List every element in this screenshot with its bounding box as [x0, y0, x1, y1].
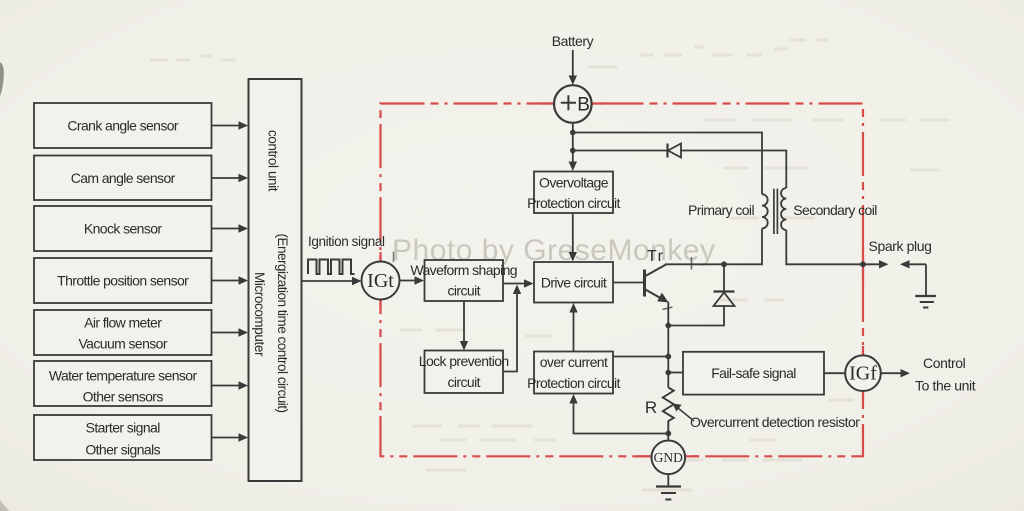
- svg-text:Cam angle sensor: Cam angle sensor: [71, 170, 176, 186]
- wire: knock sensor to control unit: [212, 224, 249, 232]
- node: spark plug junction on boundary: [860, 261, 866, 267]
- wire: emitter down to resistor R: [667, 302, 669, 388]
- node: emitter-diode junction: [665, 323, 671, 329]
- svg-text:Other sensors: Other sensors: [83, 389, 164, 405]
- terminal +B: [554, 85, 592, 123]
- node: resistor bottom junction: [665, 431, 671, 437]
- solid red stubs at terminal crossings: [381, 104, 864, 457]
- svg-text:Protection circuit: Protection circuit: [527, 375, 620, 391]
- node: collector junction: [721, 261, 727, 267]
- spark gap right electrode (arrow): [900, 260, 926, 268]
- svg-text:Waveform shaping: Waveform shaping: [410, 262, 517, 278]
- diode D1 (cathode left): [668, 144, 682, 158]
- terminal GND: [652, 441, 686, 475]
- svg-text:Battery: Battery: [552, 33, 594, 49]
- wire: lock prevention feedback to drive input: [503, 285, 521, 372]
- wire: +B to primary coil top: [573, 133, 762, 195]
- node: junction +B lower: [570, 148, 576, 154]
- svg-text:Overvoltage: Overvoltage: [539, 175, 609, 191]
- svg-text:Control: Control: [923, 355, 966, 371]
- wire: +B to diode D1: [573, 150, 667, 152]
- wire: drive circuit to transistor base: [613, 282, 644, 284]
- block: Air flow meter / Vacuum sensor: [34, 310, 212, 355]
- svg-text:control unit: control unit: [266, 130, 281, 192]
- svg-text:To the unit: To the unit: [915, 378, 976, 394]
- stray pen tick on emitter bend (decorative): [663, 307, 673, 310]
- wire: +B node to overvoltage protection circuit: [569, 151, 577, 172]
- block: Waveform shaping circuit: [410, 260, 517, 301]
- wire: spark plug to ground: [925, 264, 927, 295]
- svg-text:Water temperature sensor: Water temperature sensor: [49, 368, 198, 384]
- block: Fail-safe signal: [683, 352, 824, 395]
- svg-text:Crank angle sensor: Crank angle sensor: [67, 118, 179, 134]
- ground symbol at spark plug: [915, 296, 936, 308]
- wire: IGt to waveform shaping circuit: [400, 276, 425, 284]
- svg-text:over current: over current: [540, 354, 608, 370]
- svg-text:Vacuum sensor: Vacuum sensor: [78, 336, 167, 352]
- faint bleed-through artifacts (decorative): [46, 40, 950, 490]
- diode D2 (flyback, cathode up): [714, 292, 735, 307]
- transistor Tr collector: [645, 265, 667, 277]
- transistor Tr emitter with arrow: [645, 289, 669, 303]
- wire: secondary coil bottom to spark plug: [786, 230, 863, 264]
- svg-text:Microcomputer: Microcomputer: [252, 272, 267, 357]
- ignition coil core: [774, 189, 778, 234]
- svg-text:Spark plug: Spark plug: [869, 238, 932, 254]
- igniter unit boundary (red dash-dot rectangle): [381, 104, 864, 457]
- svg-text:R: R: [645, 398, 657, 417]
- block: Overvoltage Protection circuit: [527, 172, 620, 214]
- node: junction +B upper: [570, 130, 576, 136]
- pointer arrow: overcurrent label to resistor: [673, 404, 695, 422]
- svg-text:Drive circuit: Drive circuit: [541, 275, 607, 291]
- svg-text:Secondary coil: Secondary coil: [793, 202, 877, 218]
- svg-text:circuit: circuit: [448, 374, 481, 390]
- block: Throttle position sensor: [34, 258, 212, 303]
- node: over current sense junction: [665, 354, 671, 360]
- wire: diode D1 to secondary coil top: [681, 151, 786, 189]
- terminal IGf: [845, 355, 881, 391]
- svg-text:B: B: [577, 95, 589, 116]
- wire: cam angle sensor to control unit: [212, 174, 249, 182]
- wire: over current protection to drive circuit: [569, 303, 577, 352]
- wire: waveform shaping to lock prevention: [460, 301, 468, 351]
- block: over current Protection circuit: [527, 352, 620, 394]
- block: Knock sensor: [34, 206, 212, 251]
- svg-text:(Energization time control cir: (Energization time control circuit): [275, 233, 290, 412]
- ignition pulse waveform symbol: [308, 260, 355, 275]
- wire: +B terminal down to junctions: [572, 123, 574, 152]
- svg-text:circuit: circuit: [448, 283, 481, 299]
- wire: starter signal to control unit: [212, 433, 249, 441]
- transistor Tr base bar: [643, 270, 646, 297]
- terminal IGt: [362, 262, 400, 300]
- svg-text:Ignition signal: Ignition signal: [308, 234, 385, 249]
- wire: water temperature sensor to control unit: [212, 381, 249, 389]
- block: Drive circuit: [534, 262, 613, 303]
- svg-text:Fail-safe signal: Fail-safe signal: [711, 365, 796, 381]
- svg-text:IGf: IGf: [849, 363, 877, 385]
- ignition coil primary winding: [762, 194, 768, 228]
- wire: resistor bottom to GND terminal: [667, 434, 669, 442]
- block: Water temperature sensor / Other sensors: [34, 361, 212, 406]
- svg-text:Starter signal: Starter signal: [86, 420, 161, 436]
- wire: throttle position sensor to control unit: [212, 276, 249, 284]
- spark gap left electrode (arrow): [863, 260, 889, 268]
- svg-text:IGt: IGt: [367, 270, 394, 292]
- block: Cam angle sensor: [34, 156, 212, 201]
- wire: fail-safe block to IGf terminal: [824, 372, 846, 374]
- wire: battery to +B terminal: [569, 50, 577, 85]
- wire: collector junction down to diode D2: [723, 264, 725, 291]
- svg-text:Air flow meter: Air flow meter: [84, 315, 162, 331]
- wire: waveform shaping to drive circuit: [503, 279, 534, 287]
- wire: IGf terminal to control output: [881, 369, 910, 377]
- wire: fail-safe junction to fail-safe block: [668, 372, 683, 374]
- svg-text:Overcurrent detection resistor: Overcurrent detection resistor: [690, 414, 860, 430]
- wire: over current protection to sense junction: [613, 356, 668, 358]
- svg-text:Protection circuit: Protection circuit: [527, 195, 620, 211]
- wire: diode D2 to emitter line: [668, 306, 724, 326]
- wire: crank angle sensor to control unit: [212, 121, 249, 129]
- stray pen tick on collector wire (decorative): [691, 257, 693, 270]
- node: fail-safe junction: [665, 370, 671, 376]
- resistor R zigzag: [663, 388, 674, 434]
- ignition coil secondary winding: [781, 188, 786, 230]
- block: Starter signal / Other signals: [34, 415, 212, 460]
- wire: overvoltage protection to drive circuit: [569, 213, 577, 262]
- block: control unit (Energization time control circuit) Microcomputer: [249, 79, 302, 481]
- stray pen tick above IGt (decorative): [393, 252, 395, 263]
- wire: air flow meter to control unit: [212, 328, 249, 336]
- wire: primary coil bottom to collector: [665, 228, 762, 264]
- svg-text:GND: GND: [654, 450, 683, 465]
- block: Crank angle sensor: [34, 103, 212, 148]
- svg-text:Throttle position sensor: Throttle position sensor: [57, 273, 189, 289]
- block: Lock prevention circuit: [419, 351, 509, 394]
- svg-text:Primary coil: Primary coil: [688, 202, 754, 218]
- ground symbol below GND: [656, 474, 681, 499]
- svg-text:Lock prevention: Lock prevention: [419, 353, 509, 369]
- svg-text:Tr: Tr: [647, 248, 665, 265]
- scanner edge smudges (decorative): [0, 62, 4, 96]
- svg-text:Other signals: Other signals: [85, 442, 160, 458]
- wire: control unit to IGt terminal: [302, 277, 362, 285]
- svg-text:Knock sensor: Knock sensor: [84, 221, 163, 237]
- wire: resistor sense line to over current protection: [569, 394, 668, 434]
